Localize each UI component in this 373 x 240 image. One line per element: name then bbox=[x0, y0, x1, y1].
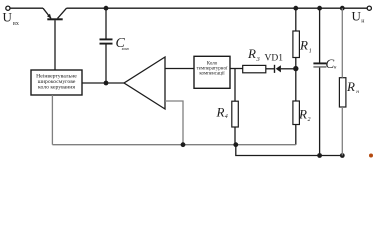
wire C_комп top bbox=[105, 8, 107, 39]
wire Rн top (gray) bbox=[341, 8, 343, 78]
wire R4 top bbox=[234, 69, 236, 102]
wire bottom rail bbox=[236, 145, 344, 156]
svg-text:коло керування: коло керування bbox=[38, 84, 75, 90]
resistor R1 bbox=[293, 31, 300, 58]
node top C_комп bbox=[104, 6, 109, 11]
op-amp U1 error amplifier bbox=[124, 57, 165, 109]
wire R3 to VD1 bbox=[266, 68, 275, 70]
svg-text:2: 2 bbox=[308, 117, 311, 123]
transistor VT pass (PNP) emitter lead bbox=[43, 8, 51, 18]
node top Cн bbox=[317, 6, 322, 11]
label Rн bbox=[346, 79, 359, 95]
block1 text bbox=[36, 73, 77, 90]
transistor base lead wire bbox=[54, 20, 56, 70]
wire emitter input bbox=[10, 7, 43, 9]
node bottom Cн bbox=[317, 153, 322, 158]
svg-text:R: R bbox=[247, 46, 256, 61]
node top R1 bbox=[293, 6, 298, 11]
label R3 bbox=[247, 46, 261, 63]
wire R2 bottom bbox=[295, 125, 297, 145]
node gray rail / bottom rail corner bbox=[233, 142, 238, 147]
wire VD1 to node B bbox=[281, 68, 296, 70]
wire Rн bottom (gray) bbox=[341, 107, 343, 156]
node B (R1/R2/VD1 junction) bbox=[293, 66, 298, 71]
wire R1 bottom bbox=[295, 58, 297, 67]
node top Rн bbox=[340, 6, 345, 11]
wire op-amp input to block2 bbox=[165, 68, 194, 70]
transistor collector lead bbox=[58, 8, 67, 18]
svg-text:4: 4 bbox=[225, 113, 228, 120]
terminal Uн bbox=[367, 6, 371, 10]
svg-text:вх: вх bbox=[13, 21, 19, 27]
label Uвх bbox=[3, 9, 19, 27]
label Cн bbox=[326, 56, 338, 71]
svg-text:н: н bbox=[356, 89, 359, 95]
label C_комп bbox=[116, 36, 130, 51]
wire block2 to R3 bbox=[230, 68, 243, 70]
node A (op-amp output / C_комп) bbox=[104, 81, 109, 86]
block temperature compensation bbox=[194, 56, 230, 88]
wire Cн top bbox=[319, 8, 321, 63]
svg-text:комп: комп bbox=[122, 47, 129, 51]
wire block1 down (gray) bbox=[51, 95, 53, 145]
diode VD1 bbox=[275, 65, 281, 73]
label Uн bbox=[352, 8, 366, 24]
wire block1 to node A bbox=[82, 82, 124, 84]
resistor R4 bbox=[232, 101, 239, 127]
transistor emitter arrow bbox=[47, 14, 51, 19]
capacitor C_комп bbox=[100, 39, 113, 43]
transistor base bar bbox=[47, 18, 62, 20]
wire top rail bbox=[67, 7, 368, 9]
wire op-amp lower tap (gray) bbox=[165, 101, 183, 145]
svg-text:1: 1 bbox=[309, 49, 312, 55]
resistor R2 bbox=[293, 101, 300, 125]
block2 text bbox=[197, 62, 228, 77]
svg-text:U: U bbox=[352, 8, 362, 23]
resistor Rн bbox=[339, 78, 346, 107]
svg-text:VD1: VD1 bbox=[265, 54, 284, 64]
decorative orange dot bottom right bbox=[369, 154, 373, 158]
svg-text:н: н bbox=[361, 19, 365, 25]
label R1 bbox=[299, 38, 312, 55]
svg-text:компенсації: компенсації bbox=[199, 72, 225, 77]
label R2 bbox=[298, 107, 311, 124]
svg-text:3: 3 bbox=[256, 56, 261, 63]
capacitor Cн bbox=[313, 63, 326, 67]
svg-text:н: н bbox=[334, 66, 337, 71]
terminal Uвх bbox=[6, 6, 10, 10]
label R4 bbox=[216, 105, 228, 121]
node bottom Rн bbox=[340, 153, 345, 158]
wire Cн bottom bbox=[319, 68, 321, 156]
node gray rail / op-amp tap bbox=[181, 142, 186, 147]
svg-text:R: R bbox=[216, 105, 225, 120]
wire R4 bottom bbox=[234, 127, 236, 145]
svg-text:R: R bbox=[298, 107, 307, 122]
wire R1 top bbox=[295, 8, 297, 31]
wire C_комп bottom bbox=[105, 44, 107, 83]
wire R2 top bbox=[295, 71, 297, 101]
svg-text:R: R bbox=[299, 38, 308, 53]
svg-text:U: U bbox=[3, 9, 13, 24]
resistor R3 bbox=[243, 65, 266, 72]
block non-inverting wideband control bbox=[31, 70, 82, 95]
wire gray rail bbox=[52, 144, 295, 146]
svg-text:R: R bbox=[346, 79, 355, 94]
